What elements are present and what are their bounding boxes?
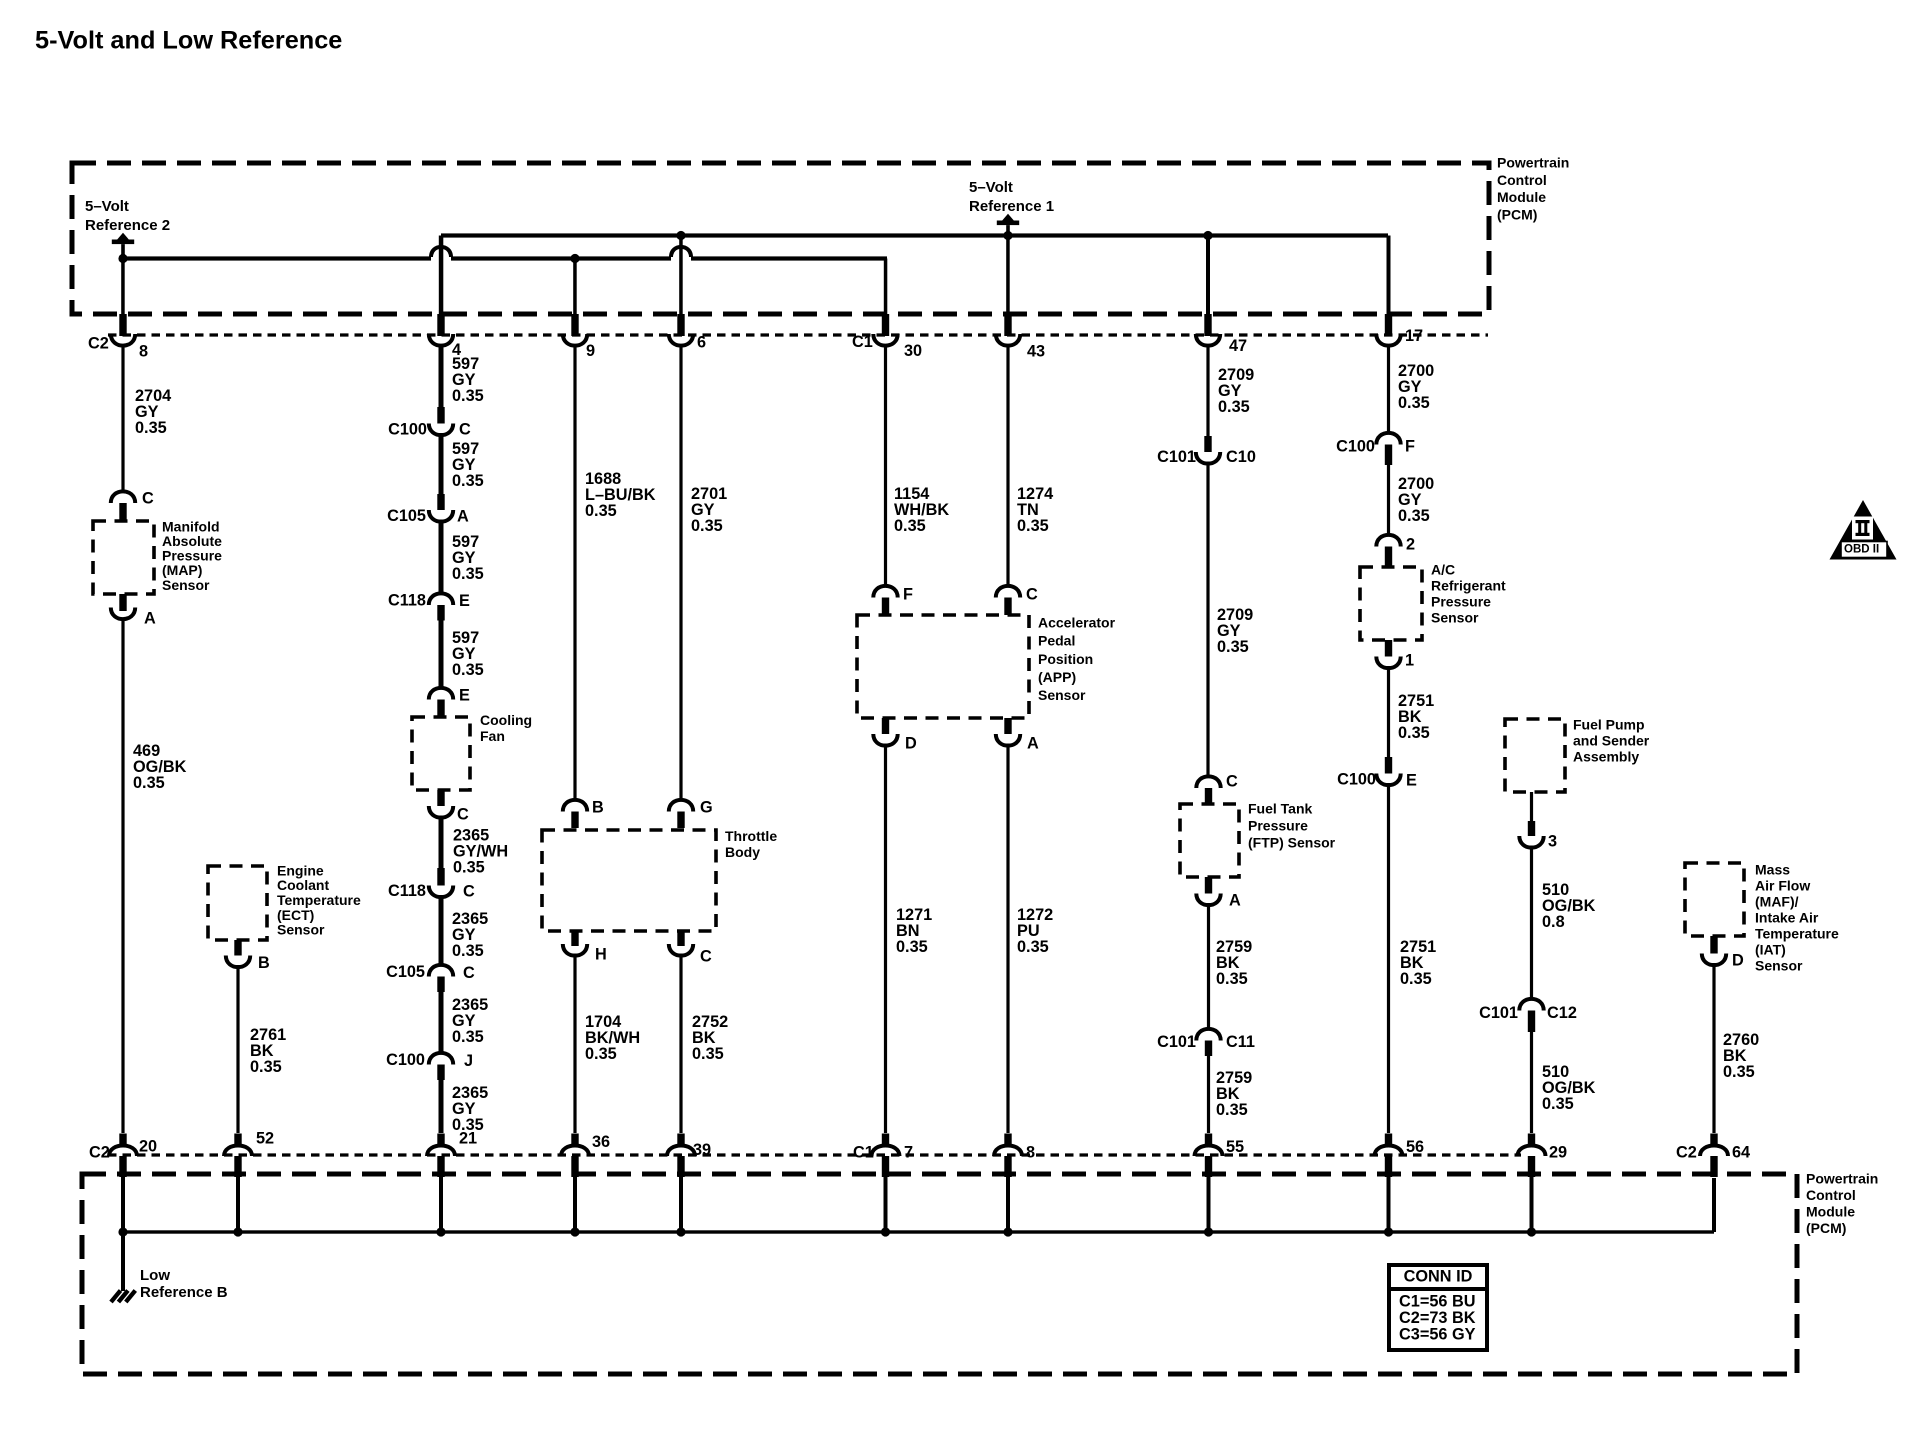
svg-text:G: G — [700, 799, 713, 817]
svg-text:0.35: 0.35 — [1398, 507, 1430, 525]
svg-text:6: 6 — [697, 334, 706, 352]
svg-text:Reference 1: Reference 1 — [969, 198, 1054, 215]
svg-text:17: 17 — [1405, 327, 1423, 345]
svg-text:Sensor: Sensor — [1755, 957, 1803, 973]
svg-text:0.35: 0.35 — [896, 938, 928, 956]
svg-text:8: 8 — [139, 343, 148, 361]
svg-text:0.35: 0.35 — [585, 502, 617, 520]
svg-text:D: D — [905, 735, 917, 753]
svg-text:A: A — [144, 610, 156, 628]
svg-text:0.35: 0.35 — [1217, 638, 1249, 656]
svg-text:21: 21 — [459, 1130, 477, 1148]
svg-text:Assembly: Assembly — [1573, 748, 1639, 764]
svg-text:Pedal: Pedal — [1038, 633, 1075, 649]
svg-text:Control: Control — [1806, 1187, 1856, 1203]
svg-text:30: 30 — [904, 342, 922, 360]
svg-text:9: 9 — [586, 342, 595, 360]
svg-text:Intake Air: Intake Air — [1755, 909, 1819, 925]
svg-text:0.35: 0.35 — [452, 1028, 484, 1046]
svg-text:Fan: Fan — [480, 728, 505, 744]
svg-text:0.35: 0.35 — [1723, 1063, 1755, 1081]
svg-text:55: 55 — [1226, 1138, 1244, 1156]
svg-text:Body: Body — [725, 844, 760, 860]
svg-text:43: 43 — [1027, 343, 1045, 361]
svg-text:Engine: Engine — [277, 862, 324, 878]
svg-text:3: 3 — [1548, 833, 1557, 851]
svg-text:Mass: Mass — [1755, 861, 1790, 877]
svg-text:Pressure: Pressure — [1248, 817, 1308, 833]
svg-text:0.35: 0.35 — [452, 565, 484, 583]
svg-text:C101: C101 — [1157, 1033, 1196, 1051]
svg-text:Powertrain: Powertrain — [1497, 154, 1569, 170]
svg-text:A: A — [1027, 735, 1039, 753]
svg-text:C101: C101 — [1157, 448, 1196, 466]
svg-text:Reference B: Reference B — [140, 1284, 228, 1301]
svg-text:C1: C1 — [852, 333, 873, 351]
svg-text:C: C — [700, 948, 712, 966]
svg-text:CONN ID: CONN ID — [1404, 1268, 1473, 1286]
svg-text:0.35: 0.35 — [452, 661, 484, 679]
svg-text:C118: C118 — [388, 882, 426, 900]
svg-text:Fuel Tank: Fuel Tank — [1248, 800, 1313, 816]
svg-text:0.35: 0.35 — [691, 517, 723, 535]
svg-text:(APP): (APP) — [1038, 669, 1076, 685]
svg-text:29: 29 — [1549, 1144, 1567, 1162]
svg-text:0.35: 0.35 — [452, 387, 484, 405]
svg-text:Absolute: Absolute — [162, 533, 222, 549]
svg-text:C: C — [463, 964, 475, 982]
svg-text:Low: Low — [140, 1267, 170, 1284]
svg-text:Accelerator: Accelerator — [1038, 614, 1116, 630]
svg-text:Position: Position — [1038, 651, 1093, 667]
svg-text:0.8: 0.8 — [1542, 913, 1565, 931]
svg-text:Temperature: Temperature — [277, 892, 361, 908]
svg-text:0.35: 0.35 — [133, 774, 165, 792]
svg-text:64: 64 — [1732, 1144, 1750, 1162]
svg-text:Coolant: Coolant — [277, 877, 329, 893]
svg-text:(ECT): (ECT) — [277, 907, 314, 923]
svg-text:0.35: 0.35 — [452, 472, 484, 490]
svg-text:2: 2 — [1406, 536, 1415, 554]
svg-text:Powertrain: Powertrain — [1806, 1170, 1878, 1186]
svg-text:56: 56 — [1406, 1138, 1424, 1156]
svg-text:C1: C1 — [853, 1144, 874, 1162]
svg-text:Control: Control — [1497, 172, 1547, 188]
svg-text:OBD II: OBD II — [1844, 544, 1879, 556]
svg-text:F: F — [903, 586, 913, 604]
svg-text:Cooling: Cooling — [480, 712, 532, 728]
svg-text:Pressure: Pressure — [1431, 593, 1491, 609]
svg-text:0.35: 0.35 — [135, 419, 167, 437]
svg-text:5-Volt and Low Reference: 5-Volt and Low Reference — [35, 27, 342, 55]
svg-text:C118: C118 — [388, 592, 426, 610]
svg-text:C105: C105 — [386, 963, 425, 981]
svg-text:C105: C105 — [387, 507, 426, 525]
svg-text:(MAP): (MAP) — [162, 562, 202, 578]
svg-text:Throttle: Throttle — [725, 828, 777, 844]
svg-text:(FTP) Sensor: (FTP) Sensor — [1248, 834, 1336, 850]
svg-text:0.35: 0.35 — [1218, 398, 1250, 416]
svg-text:C101: C101 — [1479, 1004, 1518, 1022]
svg-text:D: D — [1732, 952, 1744, 970]
svg-text:C2=73 BK: C2=73 BK — [1399, 1309, 1476, 1327]
svg-text:8: 8 — [1026, 1144, 1035, 1162]
svg-text:0.35: 0.35 — [585, 1045, 617, 1063]
svg-text:C: C — [459, 421, 471, 439]
svg-text:C: C — [1026, 586, 1038, 604]
svg-text:Sensor: Sensor — [162, 577, 210, 593]
svg-text:Refrigerant: Refrigerant — [1431, 577, 1506, 593]
svg-text:36: 36 — [592, 1133, 610, 1151]
svg-text:(MAF)/: (MAF)/ — [1755, 893, 1799, 909]
svg-text:C100: C100 — [1337, 771, 1376, 789]
svg-text:Fuel Pump: Fuel Pump — [1573, 716, 1645, 732]
svg-text:5–Volt: 5–Volt — [85, 198, 129, 215]
svg-text:39: 39 — [693, 1141, 711, 1159]
svg-text:0.35: 0.35 — [1398, 394, 1430, 412]
svg-text:C2: C2 — [88, 335, 109, 353]
svg-text:B: B — [592, 799, 604, 817]
svg-text:0.35: 0.35 — [1216, 970, 1248, 988]
svg-text:C: C — [463, 883, 475, 901]
svg-text:0.35: 0.35 — [452, 942, 484, 960]
svg-text:Sensor: Sensor — [1431, 609, 1479, 625]
svg-text:C11: C11 — [1226, 1033, 1255, 1051]
svg-text:C1=56 BU: C1=56 BU — [1399, 1293, 1475, 1311]
svg-text:0.35: 0.35 — [692, 1045, 724, 1063]
svg-text:0.35: 0.35 — [453, 859, 485, 877]
svg-text:C12: C12 — [1547, 1004, 1577, 1022]
svg-text:1: 1 — [1405, 652, 1414, 670]
svg-text:B: B — [258, 954, 270, 972]
svg-text:47: 47 — [1229, 337, 1247, 355]
svg-text:0.35: 0.35 — [894, 517, 926, 535]
svg-text:0.35: 0.35 — [1400, 970, 1432, 988]
svg-text:C2: C2 — [1676, 1144, 1697, 1162]
svg-text:52: 52 — [256, 1130, 274, 1148]
svg-text:0.35: 0.35 — [1017, 938, 1049, 956]
svg-text:Module: Module — [1806, 1204, 1855, 1220]
svg-text:Sensor: Sensor — [277, 922, 325, 938]
svg-text:0.35: 0.35 — [1216, 1101, 1248, 1119]
svg-text:C2: C2 — [89, 1144, 110, 1162]
svg-text:Module: Module — [1497, 189, 1546, 205]
svg-text:20: 20 — [139, 1138, 157, 1156]
svg-text:Manifold: Manifold — [162, 518, 220, 534]
svg-text:Sensor: Sensor — [1038, 687, 1086, 703]
svg-text:C: C — [142, 490, 154, 508]
svg-text:Temperature: Temperature — [1755, 925, 1839, 941]
svg-text:E: E — [1406, 772, 1417, 790]
svg-text:C100: C100 — [386, 1051, 425, 1069]
svg-text:0.35: 0.35 — [1398, 724, 1430, 742]
svg-text:C100: C100 — [1336, 438, 1375, 456]
svg-text:C: C — [457, 806, 469, 824]
svg-text:0.35: 0.35 — [1017, 517, 1049, 535]
svg-text:E: E — [459, 687, 470, 705]
svg-text:(PCM): (PCM) — [1497, 207, 1537, 223]
svg-text:(IAT): (IAT) — [1755, 941, 1786, 957]
svg-text:7: 7 — [904, 1144, 913, 1162]
svg-text:A: A — [457, 508, 469, 526]
svg-text:(PCM): (PCM) — [1806, 1220, 1846, 1236]
svg-text:J: J — [464, 1052, 473, 1070]
svg-text:and Sender: and Sender — [1573, 732, 1650, 748]
svg-text:Air Flow: Air Flow — [1755, 877, 1810, 893]
svg-text:0.35: 0.35 — [1542, 1095, 1574, 1113]
svg-text:5–Volt: 5–Volt — [969, 179, 1013, 196]
svg-text:C3=56 GY: C3=56 GY — [1399, 1325, 1476, 1343]
svg-text:0.35: 0.35 — [250, 1058, 282, 1076]
svg-text:Pressure: Pressure — [162, 548, 222, 564]
svg-text:A/C: A/C — [1431, 561, 1455, 577]
svg-text:C10: C10 — [1226, 448, 1256, 466]
svg-text:E: E — [459, 592, 470, 610]
svg-text:Reference 2: Reference 2 — [85, 217, 170, 234]
svg-text:H: H — [595, 946, 607, 964]
svg-text:C100: C100 — [388, 421, 427, 439]
svg-text:F: F — [1405, 438, 1415, 456]
svg-text:A: A — [1229, 892, 1241, 910]
svg-text:C: C — [1226, 773, 1238, 791]
